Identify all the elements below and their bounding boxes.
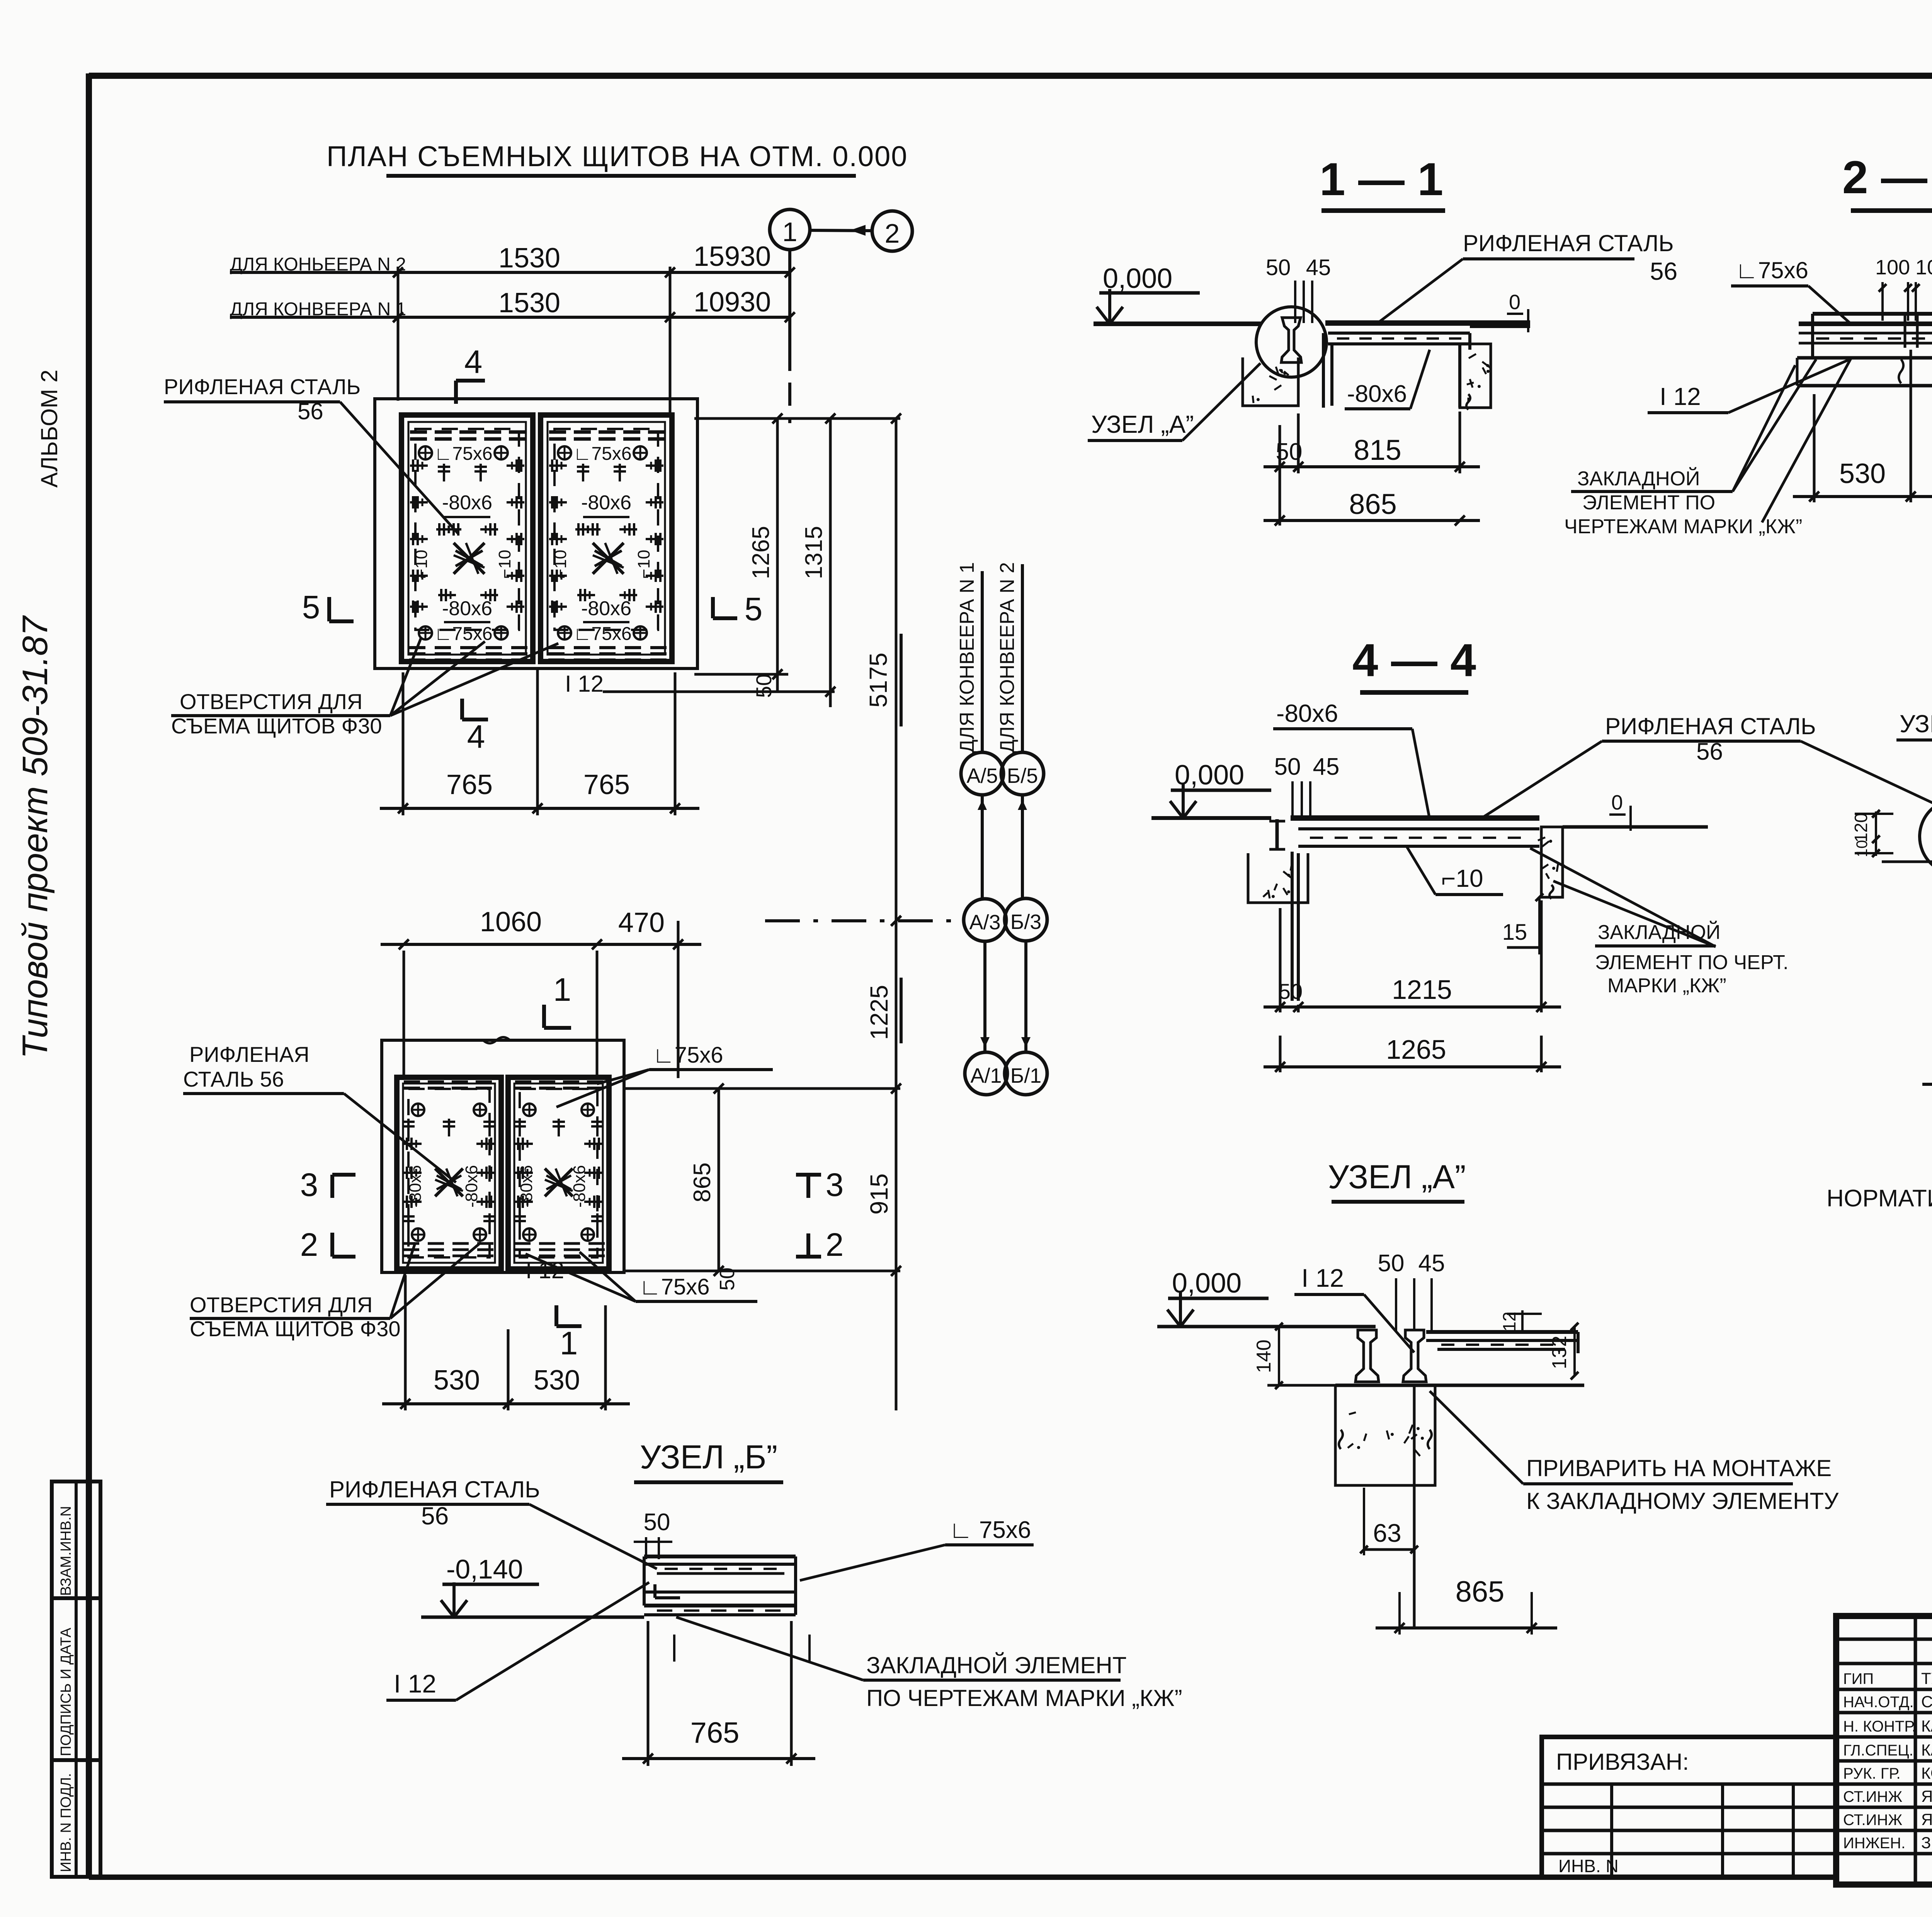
signature table columns <box>1914 1616 1917 1885</box>
axis circle B/5 <box>1001 752 1044 795</box>
svg-text:СТАЛЬ 56: СТАЛЬ 56 <box>183 1067 284 1091</box>
svg-text:3: 3 <box>826 1167 844 1203</box>
svg-text:1225: 1225 <box>865 985 893 1040</box>
vertical dim 1315 <box>829 418 832 707</box>
section 1-1 узел А circle with rail <box>1256 307 1327 377</box>
svg-text:50: 50 <box>1276 439 1303 465</box>
right extension lines of top panel <box>694 417 900 420</box>
привязан table <box>1542 1737 1836 1877</box>
bottom panel top dash band <box>515 1080 531 1084</box>
svg-text:530: 530 <box>534 1365 580 1396</box>
svg-text:50: 50 <box>644 1509 670 1536</box>
svg-text:∟75x6: ∟75x6 <box>434 444 492 464</box>
bottom panel cross <box>435 1169 463 1196</box>
axis line 1 vertical <box>788 250 791 348</box>
section 4-4 pit wall left <box>1291 852 1294 1001</box>
svg-text:ОТВЕРСТИЯ ДЛЯ: ОТВЕРСТИЯ ДЛЯ <box>180 689 362 714</box>
section mark 5 right <box>713 616 737 620</box>
svg-text:ПОДПИСЬ И ДАТА: ПОДПИСЬ И ДАТА <box>58 1628 74 1756</box>
svg-text:∟75x6: ∟75x6 <box>573 624 631 644</box>
svg-text:КАПИТУЛЬСКИЙ: КАПИТУЛЬСКИЙ <box>1921 1716 1932 1735</box>
svg-text:530: 530 <box>1839 458 1886 489</box>
узел А ground line <box>1157 1325 1376 1328</box>
svg-text:50: 50 <box>1279 979 1303 1004</box>
svg-text:15: 15 <box>1502 920 1527 945</box>
svg-text:∟75x6: ∟75x6 <box>573 444 631 464</box>
svg-text:ИНЖЕН.: ИНЖЕН. <box>1843 1835 1905 1852</box>
svg-text:ЭЛЕМЕНТ ПО ЧЕРТ.: ЭЛЕМЕНТ ПО ЧЕРТ. <box>1595 951 1789 974</box>
svg-text:5175: 5175 <box>864 653 892 708</box>
svg-text:ДЛЯ КОНВЕЕРА N 1: ДЛЯ КОНВЕЕРА N 1 <box>956 562 978 753</box>
panel label L75x6 bottom with holes <box>558 626 571 640</box>
svg-text:3: 3 <box>300 1167 318 1203</box>
axis circle A/1 <box>965 1052 1007 1095</box>
axis circle 1 <box>770 209 810 250</box>
section mark 1 bottom (bottom plan) <box>554 1305 558 1326</box>
section 2-2 leaders from закладной элемент <box>1762 359 1851 522</box>
svg-text:Типовой проект 509-31.87: Типовой проект 509-31.87 <box>15 615 55 1059</box>
узел Б dim 765 <box>647 1621 650 1766</box>
svg-text:0,000: 0,000 <box>1175 760 1244 791</box>
section 1-1 right concrete pier <box>1460 344 1491 408</box>
section 1-1 floor line left <box>1094 321 1262 326</box>
узел А rails <box>1355 1330 1379 1382</box>
svg-text:ЯРЦЕВА: ЯРЦЕВА <box>1921 1787 1932 1805</box>
svg-text:I 12: I 12 <box>394 1669 436 1698</box>
panel 1 inner thin border <box>408 422 526 655</box>
svg-text:ЧЕРТЕЖАМ МАРКИ „КЖ”: ЧЕРТЕЖАМ МАРКИ „КЖ” <box>1564 515 1802 538</box>
svg-text:-80x6: -80x6 <box>442 492 492 514</box>
section 1-1 pit walls <box>1322 333 1325 408</box>
panel label L75x6 bottom with holes <box>419 626 432 640</box>
svg-text:10930: 10930 <box>694 287 771 318</box>
svg-text:100: 100 <box>1915 256 1932 279</box>
svg-text:РИФЛЕНАЯ СТАЛЬ: РИФЛЕНАЯ СТАЛЬ <box>164 374 361 399</box>
right extension lines of bottom panel <box>624 1087 900 1090</box>
svg-text:100: 100 <box>1875 256 1910 279</box>
svg-text:ДЛЯ КОНВЕЕРА N 2: ДЛЯ КОНВЕЕРА N 2 <box>996 562 1019 753</box>
svg-text:∟75x6: ∟75x6 <box>653 1043 723 1068</box>
svg-text:0,000: 0,000 <box>1172 1268 1242 1299</box>
vertical dim 1265 <box>776 418 779 692</box>
svg-text:I 12: I 12 <box>1660 383 1701 410</box>
svg-text:Б/3: Б/3 <box>1010 910 1041 934</box>
panel center cross hatch <box>593 543 624 574</box>
panel label L75x6 with holes <box>558 446 571 459</box>
section 4-4 floor left with rail <box>1151 816 1271 820</box>
bottom panel bolts bottom <box>519 1213 521 1231</box>
svg-text:СТ.ИНЖ: СТ.ИНЖ <box>1843 1788 1902 1805</box>
svg-text:4: 4 <box>467 718 485 755</box>
panel bolt cluster above lower label <box>577 594 595 596</box>
svg-text:I 12: I 12 <box>1301 1264 1344 1292</box>
svg-text:⌐10: ⌐10 <box>634 550 653 579</box>
svg-text:УЗЕЛ „Б”: УЗЕЛ „Б” <box>1900 710 1932 738</box>
узел А base line under rails <box>1335 1384 1584 1387</box>
title block outer box <box>1836 1616 1932 1885</box>
svg-text:865: 865 <box>1456 1575 1505 1608</box>
axis leader between circles <box>810 230 872 231</box>
svg-text:СЪЕМА ЩИТОВ Ф30: СЪЕМА ЩИТОВ Ф30 <box>190 1317 401 1341</box>
svg-text:2: 2 <box>300 1226 318 1263</box>
signature table rows <box>1836 1638 1932 1641</box>
svg-text:МАРКИ „КЖ”: МАРКИ „КЖ” <box>1607 975 1726 997</box>
svg-text:530: 530 <box>434 1365 480 1396</box>
bottom panel bolts top <box>407 1119 410 1136</box>
svg-text:РИФЛЕНАЯ: РИФЛЕНАЯ <box>189 1042 310 1067</box>
section 2-2 panel band <box>1799 321 1932 326</box>
svg-text:45: 45 <box>1306 255 1331 280</box>
bottom panel 2 inner dashed <box>520 1089 597 1257</box>
svg-text:НОРМАТИВНАЯ НАГРУЗКА НА СЪЕ: НОРМАТИВНАЯ НАГРУЗКА НА СЪЕМНЫЕ ЩИТЫ 150… <box>1827 1185 1932 1212</box>
svg-text:УЗЕЛ „Б”: УЗЕЛ „Б” <box>640 1439 777 1476</box>
svg-text:50: 50 <box>752 674 776 698</box>
conveyor axis lines N1 N2 <box>981 571 984 752</box>
section 5-5 узел Б circle <box>1920 799 1932 874</box>
panel 2 inner thin border <box>548 422 665 655</box>
svg-text:ЭЛЕМЕНТ ПО: ЭЛЕМЕНТ ПО <box>1582 492 1715 514</box>
svg-text:АЛЬБОМ 2: АЛЬБОМ 2 <box>36 370 62 488</box>
svg-text:-80x6: -80x6 <box>581 492 631 514</box>
svg-text:⌐10: ⌐10 <box>495 550 514 579</box>
bottom panel 2 inner thin border <box>514 1084 603 1263</box>
svg-text:-80x6: -80x6 <box>581 597 631 620</box>
узел А panel right of rail <box>1426 1330 1578 1334</box>
bottom panel top dash band <box>404 1080 420 1084</box>
bottom panel bottom dash band <box>403 1242 419 1245</box>
svg-text:А/1: А/1 <box>970 1064 1002 1087</box>
svg-text:ГИП: ГИП <box>1843 1670 1874 1687</box>
svg-text:1530: 1530 <box>498 287 560 318</box>
svg-text:ЗИНЧЕНКО: ЗИНЧЕНКО <box>1921 1834 1932 1852</box>
svg-text:ТУРИНСКИЙ: ТУРИНСКИЙ <box>1921 1669 1932 1687</box>
svg-text:1: 1 <box>782 217 798 247</box>
bottom panel assembly outer rectangle <box>382 1040 624 1272</box>
section 4-4 right pier <box>1541 827 1563 897</box>
section 1-1 dim 865 <box>1264 519 1480 522</box>
top panel 1 <box>401 415 533 662</box>
svg-text:1060: 1060 <box>480 907 542 937</box>
section marks 3 and 2 right <box>796 1173 821 1177</box>
svg-text:1265: 1265 <box>748 526 774 579</box>
horizontal axis dash line at A/3 <box>765 919 964 922</box>
sheet border frame <box>89 73 1932 79</box>
svg-text:ГЛ.СПЕЦ.: ГЛ.СПЕЦ. <box>1843 1742 1913 1759</box>
узел Б panel assembly <box>644 1555 796 1558</box>
svg-text:5: 5 <box>302 589 320 625</box>
svg-text:Н. КОНТР.: Н. КОНТР. <box>1843 1718 1916 1735</box>
svg-text:НАЧ.ОТД.: НАЧ.ОТД. <box>1843 1694 1914 1711</box>
panel bolts top row <box>582 464 584 481</box>
svg-text:56: 56 <box>421 1502 449 1530</box>
panel hatch dashes top <box>549 430 566 434</box>
margin stamp table <box>52 1482 100 1877</box>
panel bolt cluster above lower label <box>438 594 456 596</box>
section 1-1 dim 50 815 <box>1279 425 1281 526</box>
panel bolts right column <box>507 464 524 467</box>
svg-text:0: 0 <box>1611 791 1623 814</box>
svg-text:РИФЛЕНАЯ СТАЛЬ: РИФЛЕНАЯ СТАЛЬ <box>1605 713 1816 739</box>
svg-text:КОРСУНСКИЙ: КОРСУНСКИЙ <box>1921 1764 1932 1782</box>
panel bolts top row <box>443 464 445 481</box>
section 4-4 left concrete block <box>1248 853 1308 903</box>
svg-text:СЪЕМА ЩИТОВ Ф30: СЪЕМА ЩИТОВ Ф30 <box>171 714 382 738</box>
svg-text:-80x6: -80x6 <box>1347 381 1407 407</box>
узел А dim 12 rotated <box>1521 1310 1524 1332</box>
узел Б ground line <box>421 1616 644 1619</box>
axis circle 2 <box>872 211 912 251</box>
svg-text:-80x6: -80x6 <box>1276 699 1338 727</box>
svg-text:ПРИВЯЗАН:: ПРИВЯЗАН: <box>1556 1749 1689 1775</box>
svg-text:РУК. ГР.: РУК. ГР. <box>1843 1765 1901 1782</box>
section 5-5 lower slab line <box>1882 861 1932 863</box>
svg-text:ПО ЧЕРТЕЖАМ МАРКИ „КЖ”: ПО ЧЕРТЕЖАМ МАРКИ „КЖ” <box>866 1685 1182 1711</box>
section 2-2 dim 530 530 <box>1813 394 1816 502</box>
svg-text:2 — 2: 2 — 2 <box>1842 151 1932 203</box>
panel center cross hatch <box>454 543 485 574</box>
svg-text:А/5: А/5 <box>966 764 998 788</box>
svg-text:10: 10 <box>1854 840 1871 857</box>
svg-text:2: 2 <box>826 1226 844 1263</box>
svg-text:ЯРЦЕВА: ЯРЦЕВА <box>1921 1810 1932 1829</box>
svg-text:1215: 1215 <box>1392 975 1452 1005</box>
svg-text:ПРИВАРИТЬ НА МОНТАЖЕ: ПРИВАРИТЬ НА МОНТАЖЕ <box>1526 1455 1832 1481</box>
section 5-5 left dims 120 10 <box>1875 811 1877 856</box>
svg-text:915: 915 <box>865 1174 893 1215</box>
svg-text:I 12: I 12 <box>565 671 604 697</box>
bottom panel 2 <box>508 1077 609 1269</box>
svg-text:∟ 75x6: ∟ 75x6 <box>949 1517 1031 1543</box>
dim 1060/470 above bottom panel <box>403 951 405 1078</box>
svg-text:1315: 1315 <box>801 526 827 579</box>
svg-text:45: 45 <box>1313 754 1340 780</box>
svg-text:УЗЕЛ „А”: УЗЕЛ „А” <box>1091 410 1194 438</box>
svg-text:470: 470 <box>618 907 665 938</box>
svg-text:865: 865 <box>689 1162 716 1202</box>
long vertical dim line 5175/1225/915 <box>895 418 898 1410</box>
panel bolt cluster under label <box>583 528 600 531</box>
svg-text:Б/5: Б/5 <box>1007 764 1038 788</box>
svg-text:-80x6: -80x6 <box>442 597 492 620</box>
axis circle B/3 <box>1005 898 1047 941</box>
extension lines top plan <box>397 267 400 401</box>
axis circle B/1 <box>1005 1052 1047 1095</box>
bottom panel side bolts <box>404 1143 422 1145</box>
svg-text:∟75x6: ∟75x6 <box>1735 257 1808 283</box>
panel bolts left column <box>410 464 428 467</box>
svg-text:865: 865 <box>1349 488 1396 520</box>
section 1-1 removable panel band <box>1325 320 1530 326</box>
panel label L75x6 with holes <box>419 446 432 459</box>
svg-text:⌐10: ⌐10 <box>551 550 570 579</box>
svg-text:5: 5 <box>745 591 763 627</box>
узел А anchor axis <box>1413 1385 1416 1628</box>
panel 1 inner dashed outline <box>415 429 519 630</box>
svg-text:765: 765 <box>583 769 630 800</box>
svg-text:4 — 4: 4 — 4 <box>1352 634 1476 686</box>
panel bolts right column <box>646 464 663 467</box>
svg-text:ВЗАМ.ИНВ.N: ВЗАМ.ИНВ.N <box>58 1506 74 1596</box>
bottom panel bolts top <box>519 1119 521 1136</box>
bottom panel bottom dash band <box>514 1242 531 1245</box>
bottom panel 1 <box>397 1077 501 1269</box>
svg-text:63: 63 <box>1373 1519 1401 1547</box>
svg-text:КАПИТУЛЬСКИЙ: КАПИТУЛЬСКИЙ <box>1921 1740 1932 1759</box>
panel hatch dashes top <box>410 430 427 434</box>
узел А concrete foundation <box>1335 1385 1435 1485</box>
svg-text:СТ.ИНЖ: СТ.ИНЖ <box>1843 1812 1902 1829</box>
svg-text:ЗАКЛАДНОЙ ЭЛЕМЕНТ: ЗАКЛАДНОЙ ЭЛЕМЕНТ <box>866 1652 1127 1678</box>
panel 2 inner dashed outline <box>554 429 658 630</box>
vertical dim 865 <box>718 1089 720 1271</box>
svg-text:120: 120 <box>1851 813 1871 843</box>
узел А dim 140 rotated <box>1278 1327 1280 1385</box>
dim 530/530 below bottom panels <box>404 1275 407 1410</box>
svg-text:РИФЛЕНАЯ СТАЛЬ: РИФЛЕНАЯ СТАЛЬ <box>1463 230 1674 256</box>
top panel assembly outer rectangle <box>375 399 697 668</box>
svg-text:ИНВ. N ПОДЛ.: ИНВ. N ПОДЛ. <box>58 1773 74 1872</box>
section mark 4 bottom <box>460 699 464 720</box>
bottom panel side bolts <box>515 1143 533 1145</box>
svg-text:-0,140: -0,140 <box>446 1554 523 1584</box>
svg-text:0: 0 <box>1509 291 1520 314</box>
bottom panel bolts bottom <box>407 1213 410 1231</box>
section 4-4 dim 1265 <box>1264 1065 1561 1068</box>
top panel 2 <box>541 415 672 662</box>
dim 765/765 below top panels <box>402 672 405 815</box>
section 4-4 panel band <box>1291 815 1539 821</box>
svg-text:1: 1 <box>553 971 571 1008</box>
svg-text:I 12: I 12 <box>526 1257 564 1283</box>
svg-text:ПЛАН СЪЕМНЫХ ЩИТОВ НА ОТМ.: ПЛАН СЪЕМНЫХ ЩИТОВ НА ОТМ. 0.000 <box>327 140 908 172</box>
svg-text:1265: 1265 <box>1386 1034 1446 1065</box>
section 2-2 slab below <box>1797 356 1932 360</box>
svg-text:ИНВ. N: ИНВ. N <box>1558 1856 1619 1876</box>
svg-text:50: 50 <box>1274 754 1301 780</box>
panel bottom dash band <box>409 646 425 649</box>
svg-text:К ЗАКЛАДНОМУ ЭЛЕМЕНТУ: К ЗАКЛАДНОМУ ЭЛЕМЕНТУ <box>1526 1488 1839 1514</box>
svg-text:50: 50 <box>716 1267 739 1291</box>
svg-text:56: 56 <box>1650 257 1677 285</box>
svg-text:0,000: 0,000 <box>1103 263 1172 294</box>
panel bottom dash band <box>548 646 565 649</box>
panel bolt cluster under label <box>444 528 461 531</box>
svg-text:815: 815 <box>1354 434 1401 466</box>
узел Б small q ticks <box>673 1635 675 1662</box>
bottom panel cross <box>545 1169 573 1196</box>
svg-text:140: 140 <box>1253 1340 1275 1373</box>
svg-text:4: 4 <box>464 344 483 380</box>
svg-text:1530: 1530 <box>498 243 560 274</box>
section 1-1 left small concrete <box>1243 357 1298 406</box>
svg-text:1 — 1: 1 — 1 <box>1320 153 1443 205</box>
section 1-1 floor line right of panel <box>1470 325 1530 328</box>
svg-text:15930: 15930 <box>694 241 771 272</box>
section 4-4 floor right <box>1563 825 1708 829</box>
bottom panel 1 inner dashed <box>408 1089 490 1257</box>
svg-text:⌐10: ⌐10 <box>412 550 431 579</box>
svg-text:2: 2 <box>885 218 900 248</box>
svg-text:РИФЛЕНАЯ СТАЛЬ: РИФЛЕНАЯ СТАЛЬ <box>329 1476 540 1502</box>
svg-text:⌐10: ⌐10 <box>1441 864 1483 892</box>
bottom panel holes <box>412 1104 424 1116</box>
svg-text:1: 1 <box>560 1325 578 1361</box>
svg-text:СВЕТЛИЧНЫЙ: СВЕТЛИЧНЫЙ <box>1921 1692 1932 1711</box>
svg-text:50: 50 <box>1266 255 1291 280</box>
svg-text:∟75x6: ∟75x6 <box>639 1274 710 1300</box>
section 4-4 dim 50 1215 <box>1279 908 1282 1012</box>
svg-text:УЗЕЛ „А”: УЗЕЛ „А” <box>1328 1158 1466 1196</box>
axis circle A/3 <box>964 899 1006 941</box>
svg-text:Б/1: Б/1 <box>1010 1064 1041 1087</box>
svg-text:50: 50 <box>1378 1250 1405 1277</box>
bottom panel holes <box>523 1104 536 1116</box>
svg-text:ОТВЕРСТИЯ ДЛЯ: ОТВЕРСТИЯ ДЛЯ <box>190 1293 372 1317</box>
axis circle A/5 <box>961 752 1003 795</box>
svg-text:132: 132 <box>1548 1336 1571 1369</box>
panel bolts left column <box>549 464 567 467</box>
svg-text:765: 765 <box>690 1716 740 1749</box>
узел А dim 132 rotated <box>1573 1327 1576 1376</box>
svg-text:765: 765 <box>446 769 493 800</box>
svg-text:ЗАКЛАДНОЙ: ЗАКЛАДНОЙ <box>1577 467 1700 490</box>
svg-text:45: 45 <box>1418 1250 1445 1277</box>
svg-text:А/3: А/3 <box>969 911 1000 934</box>
bottom panel 1 inner thin border <box>403 1084 495 1263</box>
